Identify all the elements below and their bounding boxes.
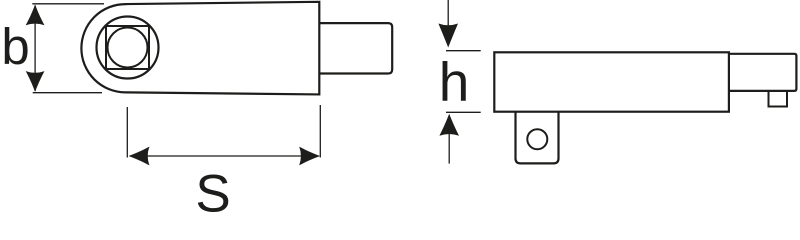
dimension b: bottom extension tick (33, 92, 102, 94)
svg-text:h: h (439, 51, 470, 113)
right view: detent notch below tang (769, 91, 788, 107)
dimension S: left arrowhead (129, 147, 150, 166)
right view: hole circle in lug (527, 129, 547, 149)
right view: body rectangle (494, 52, 729, 111)
dimension S: horizontal dimension line (130, 155, 319, 157)
dimension h: lower arrowhead (pointing up) (439, 114, 459, 136)
dimension S: left extension line (126, 107, 128, 158)
left view: inner circle inside square hole (108, 28, 148, 68)
dimension b: top extension tick (32, 3, 104, 5)
left view: rectangular tang with rounded right corners (319, 23, 392, 73)
dimension h: lower arrow stem (448, 134, 450, 164)
left view: outer circle of drive boss (97, 17, 159, 79)
dimension b: vertical dimension line (34, 6, 36, 92)
dimension b: lower arrowhead (26, 71, 45, 92)
dimension b: upper arrowhead (26, 5, 45, 26)
dimension h: upper arrow stem (447, 0, 449, 28)
left view: tool body outline (stadium with flared right end) (81, 2, 319, 95)
svg-text:b: b (1, 18, 29, 75)
dimension h: upper arrowhead (pointing down) (438, 24, 458, 48)
dimension h: top extension line (446, 50, 481, 52)
left view: square drive hole (106, 26, 149, 69)
dimension S: right arrowhead (299, 147, 320, 166)
svg-text:S: S (195, 165, 230, 221)
right view: tang seen from side (729, 54, 797, 91)
dimension h: bottom extension line (446, 111, 481, 113)
right view: square-drive lug hanging below with rounded bottom corners (516, 112, 559, 164)
dimension S: right extension line (319, 105, 321, 158)
